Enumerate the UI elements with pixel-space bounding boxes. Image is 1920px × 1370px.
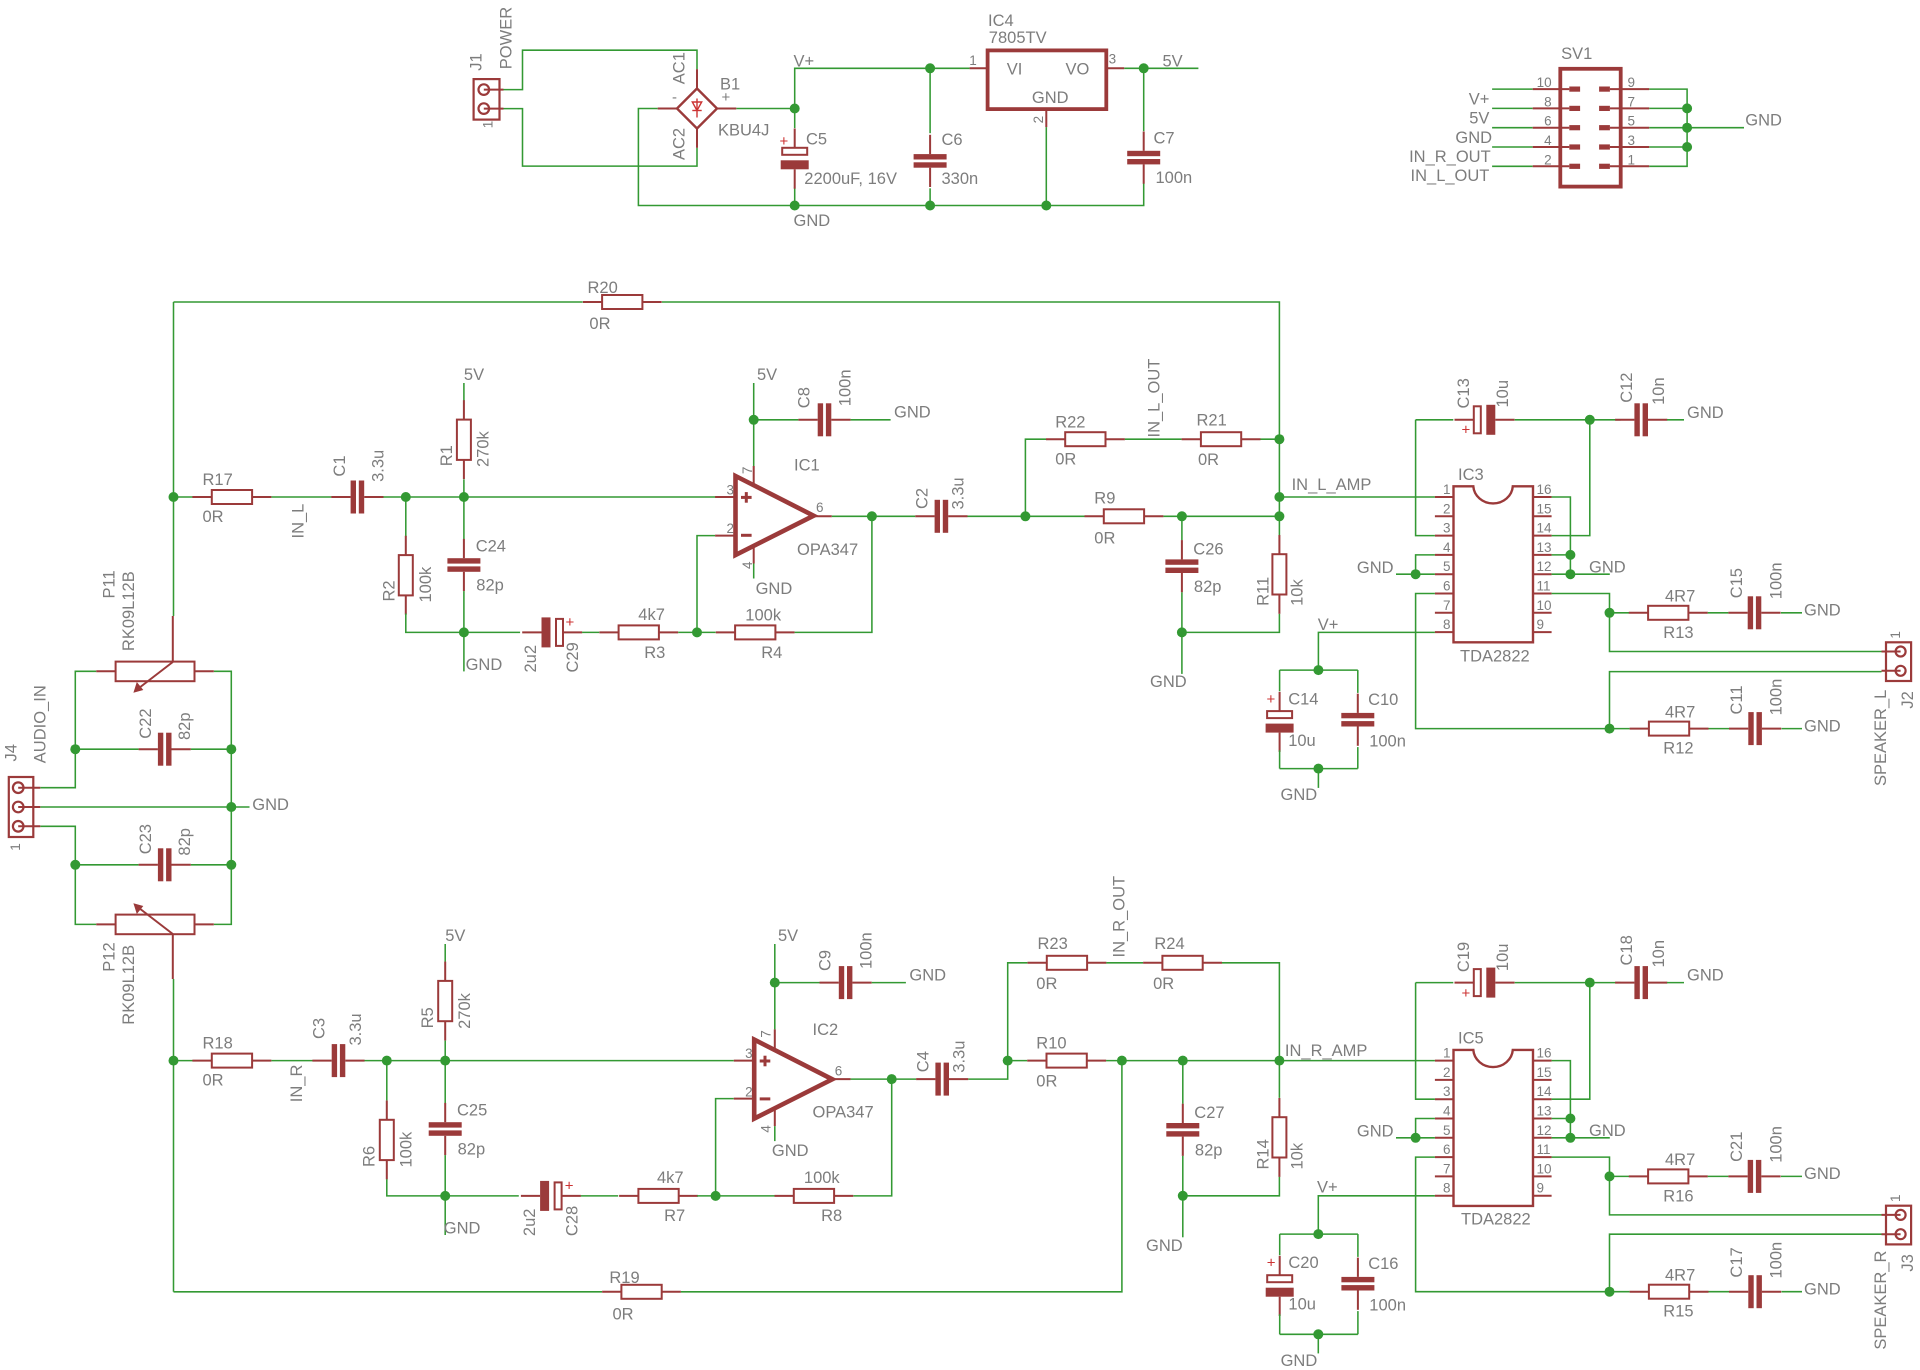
svg-text:12: 12 (1537, 559, 1552, 574)
svg-text:C3: C3 (311, 1018, 329, 1039)
wire C27 GND row to R14 (1183, 1177, 1280, 1196)
svg-text:GND: GND (252, 796, 289, 814)
svg-text:270k: 270k (475, 430, 493, 467)
svg-text:5V: 5V (778, 927, 798, 945)
junction C27/GND row (1178, 1191, 1188, 1201)
wire C20 top (1279, 1234, 1281, 1255)
svg-text:C16: C16 (1368, 1255, 1398, 1273)
wire pot right rail (214, 671, 232, 924)
wire IC1 pin7 5V (753, 383, 755, 466)
junction main/R6 (382, 1056, 392, 1066)
wire C19 link to pin3 (1416, 983, 1435, 1100)
junction main/R2 (401, 492, 411, 502)
resistor R24 0R (1143, 935, 1222, 993)
svg-text:GND: GND (894, 404, 931, 422)
junction pin11/R16 (1605, 1171, 1615, 1181)
svg-text:8: 8 (1443, 617, 1451, 632)
svg-text:GND: GND (1804, 601, 1841, 619)
svg-text:3.3u: 3.3u (370, 450, 388, 482)
svg-text:100n: 100n (857, 932, 875, 969)
wire C10 top (1357, 670, 1359, 693)
wire C26 GND row to R11 (1182, 614, 1280, 633)
wire R2 bottom to feedback row (406, 614, 464, 633)
capacitor C9 100n (817, 932, 876, 999)
label C24 (476, 538, 506, 595)
wire pin11 to R13/J2 (1552, 594, 1882, 652)
wire main row L1 (174, 496, 193, 498)
junction main/R5/C25 (440, 1056, 450, 1066)
svg-text:VO: VO (1066, 60, 1090, 78)
wire C22 row right (191, 748, 232, 750)
wire C9 left (775, 982, 820, 984)
svg-text:R1: R1 (438, 445, 456, 466)
svg-text:R5: R5 (419, 1007, 437, 1028)
svg-text:4R7: 4R7 (1665, 1151, 1695, 1169)
label C16 (1368, 1255, 1406, 1315)
svg-text:5V: 5V (445, 927, 465, 945)
svg-text:GND: GND (444, 1220, 481, 1238)
wire pin6 to R15 row (1416, 1157, 1610, 1292)
junction C13/C12 (1585, 415, 1595, 425)
svg-text:9: 9 (1628, 75, 1636, 90)
svg-text:2: 2 (1443, 1065, 1451, 1080)
capacitor C22 82p (137, 708, 194, 765)
wire R15-C17 (1709, 1291, 1730, 1293)
wire cap block top R (1280, 1233, 1358, 1235)
wire IC2 output (851, 1078, 916, 1080)
svg-text:-: - (672, 89, 677, 106)
svg-text:GND: GND (1804, 717, 1841, 735)
svg-text:7: 7 (740, 467, 755, 475)
resistor R22 0R (1046, 414, 1125, 469)
wire IC1 output (832, 515, 916, 517)
wire pin5 to GND (1396, 573, 1435, 575)
svg-text:+: + (1462, 985, 1471, 1002)
svg-text:GND: GND (1687, 404, 1724, 422)
svg-text:100n: 100n (836, 369, 854, 406)
svg-text:R19: R19 (609, 1269, 639, 1287)
wire IC2 pin4 (774, 1126, 776, 1141)
svg-text:1: 1 (969, 53, 977, 68)
svg-text:+: + (566, 614, 575, 631)
wire C25 bottom (444, 1155, 446, 1196)
junction pin7/C8 (749, 415, 759, 425)
resistor R3 4k7 (599, 606, 678, 662)
svg-text:SPEAKER_R: SPEAKER_R (1872, 1250, 1890, 1349)
svg-text:RK09L12B: RK09L12B (120, 571, 138, 651)
junction pin13 tie R (1565, 1114, 1575, 1124)
wire R10 right (1106, 1060, 1279, 1062)
resistor R15 4R7 (1630, 1266, 1709, 1320)
svg-text:3: 3 (1443, 521, 1451, 536)
label C7 (1154, 130, 1193, 187)
wire IC1 pin4 (753, 564, 755, 579)
svg-text:R15: R15 (1663, 1303, 1693, 1321)
junction block bottom R (1313, 1329, 1323, 1339)
wire pin12 to GND R (1552, 1137, 1610, 1139)
svg-text:GND: GND (756, 580, 793, 598)
svg-text:C1: C1 (331, 456, 349, 477)
svg-text:100n: 100n (1369, 733, 1406, 751)
svg-text:C2: C2 (914, 488, 932, 509)
wire pin14 link R (1552, 983, 1590, 1100)
svg-text:C9: C9 (817, 950, 835, 971)
svg-text:82p: 82p (176, 828, 194, 856)
wire C18 left (1590, 982, 1621, 984)
wire R22 riser (1025, 439, 1046, 516)
svg-text:GND: GND (794, 212, 831, 230)
svg-text:14: 14 (1537, 521, 1553, 536)
svg-text:2: 2 (745, 1085, 753, 1100)
svg-text:6: 6 (1544, 114, 1552, 129)
wire C19 right (1515, 982, 1590, 984)
svg-text:R2: R2 (381, 580, 399, 601)
capacitor C4 3.3u (914, 1041, 968, 1096)
junction GND/C6 (925, 201, 935, 211)
junction output/R4 (867, 511, 877, 521)
wire R12 left (1610, 728, 1630, 730)
svg-text:10: 10 (1537, 75, 1552, 90)
resistor R18 0R (192, 1035, 271, 1090)
junction pin13 tie (1565, 550, 1575, 560)
junction block bottom L (1313, 764, 1323, 774)
junction J4/C22 left (70, 744, 80, 754)
svg-text:IN_R_AMP: IN_R_AMP (1285, 1042, 1368, 1060)
svg-text:P11: P11 (101, 570, 119, 598)
wire SV1 pin6 (1492, 127, 1533, 129)
svg-text:10u: 10u (1288, 1296, 1316, 1314)
wire C2 right (968, 515, 1026, 517)
wire IC2 pin7 5V (774, 944, 776, 1029)
resistor R14 10k (1254, 1098, 1306, 1177)
wire 5V to R5 (444, 944, 446, 962)
junction rail/R21 (1274, 434, 1284, 444)
svg-text:RK09L12B: RK09L12B (120, 945, 138, 1025)
potentiometer P12 RK09L12B (96, 903, 214, 1024)
svg-text:R10: R10 (1036, 1035, 1066, 1053)
wire C21 right (1781, 1175, 1802, 1177)
svg-text:3: 3 (1109, 52, 1117, 67)
svg-text:100k: 100k (804, 1169, 841, 1187)
junction pin4/5 tie (1411, 569, 1421, 579)
capacitor C3 3.3u (311, 1013, 366, 1077)
wire pin12 to GND (1552, 573, 1610, 575)
svg-text:C13: C13 (1455, 378, 1473, 408)
svg-text:4R7: 4R7 (1665, 703, 1695, 721)
svg-text:5V: 5V (464, 366, 484, 384)
wire C16 bottom (1357, 1311, 1359, 1334)
wire V+ row IC5 (1318, 1196, 1435, 1234)
svg-text:7805TV: 7805TV (989, 29, 1047, 47)
svg-text:C15: C15 (1728, 568, 1746, 598)
wire R2 top (405, 497, 407, 537)
wire R5 bottom (444, 1041, 446, 1061)
wire R1 bottom (463, 479, 465, 497)
wire pin5 to GND R (1396, 1137, 1435, 1139)
svg-text:GND: GND (1150, 673, 1187, 691)
svg-text:V+: V+ (1469, 91, 1490, 109)
svg-text:C27: C27 (1194, 1104, 1224, 1122)
bridge rectifier B1 KBU4J (658, 52, 770, 160)
resistor R6 100k (361, 1101, 416, 1180)
svg-text:OPA347: OPA347 (797, 541, 858, 559)
label C26 (1193, 541, 1223, 596)
voltage regulator IC4 7805TV (969, 12, 1124, 127)
svg-text:R16: R16 (1663, 1187, 1693, 1205)
svg-text:IC5: IC5 (1458, 1030, 1484, 1048)
svg-text:+: + (565, 1178, 574, 1195)
svg-text:5V: 5V (1163, 53, 1183, 71)
junction C24/feedback row (459, 627, 469, 637)
wire J1 pin1 to bridge AC2 (504, 109, 698, 167)
junction R15 row (1605, 1287, 1615, 1297)
svg-text:P12: P12 (101, 942, 119, 971)
svg-text:C10: C10 (1368, 691, 1398, 709)
wire C6 bottom (929, 188, 931, 205)
svg-text:IC4: IC4 (988, 12, 1014, 30)
wire pin13 stub (1552, 554, 1571, 556)
wire GND stub block R (1317, 1334, 1319, 1353)
svg-text:14: 14 (1537, 1084, 1553, 1099)
wire main row R3 (365, 1060, 734, 1062)
wire C10 bottom (1357, 747, 1359, 769)
wire C16 top (1357, 1234, 1359, 1257)
svg-text:2u2: 2u2 (521, 1209, 539, 1237)
wire 5V to R1 (463, 383, 465, 401)
svg-text:0R: 0R (613, 1306, 634, 1324)
junction main/R1/C24 (459, 492, 469, 502)
svg-text:4R7: 4R7 (1665, 1266, 1695, 1284)
svg-text:10: 10 (1537, 598, 1552, 613)
svg-text:100n: 100n (1768, 1126, 1786, 1163)
svg-text:C17: C17 (1728, 1247, 1746, 1277)
svg-text:12: 12 (1537, 1123, 1552, 1138)
svg-text:13: 13 (1537, 1104, 1552, 1119)
wire feedback row L3 (678, 631, 716, 633)
wire SV1 right GND bus (1649, 89, 1687, 166)
wire R15 to J3 pin2 (1610, 1234, 1882, 1292)
svg-text:10: 10 (1537, 1161, 1552, 1176)
svg-text:4: 4 (1443, 540, 1451, 555)
junction R12 row (1605, 724, 1615, 734)
svg-text:+: + (1267, 691, 1276, 708)
resistor R12 4R7 (1630, 703, 1709, 757)
wire C17 right (1782, 1291, 1803, 1293)
svg-text:AUDIO_IN: AUDIO_IN (32, 685, 50, 763)
wire GND stub C25 (444, 1196, 446, 1235)
wire 5V node (1124, 67, 1198, 69)
label C6 (942, 131, 979, 188)
svg-text:7: 7 (759, 1030, 774, 1038)
svg-text:6: 6 (1443, 1142, 1451, 1157)
resistor R20 0R (583, 279, 662, 333)
capacitor None None (1165, 540, 1198, 592)
svg-text:2: 2 (1544, 152, 1552, 167)
svg-text:R21: R21 (1197, 412, 1227, 430)
svg-text:C28: C28 (563, 1206, 581, 1236)
svg-text:7: 7 (1628, 94, 1636, 109)
svg-text:8: 8 (1544, 94, 1552, 109)
svg-text:270k: 270k (456, 992, 474, 1029)
junction left rail/R17 (169, 492, 179, 502)
svg-text:9: 9 (1537, 1181, 1545, 1196)
wire R8 right to output (853, 1079, 891, 1196)
wire R12-C11 (1709, 728, 1730, 730)
wire C11 right (1782, 728, 1803, 730)
wire R13 left (1610, 612, 1630, 614)
svg-text:9: 9 (1537, 617, 1545, 632)
svg-text:GND: GND (1146, 1237, 1183, 1255)
wire C25 top (444, 1061, 446, 1103)
svg-text:10n: 10n (1650, 940, 1668, 968)
svg-text:15: 15 (1537, 1065, 1552, 1080)
resistor R13 4R7 (1629, 588, 1708, 642)
svg-text:0R: 0R (589, 315, 610, 333)
resistor R4 100k (716, 606, 795, 662)
wire C9 right (872, 982, 906, 984)
svg-text:0R: 0R (1036, 975, 1057, 993)
capacitor None None (447, 539, 480, 591)
capacitor C11 100n (1728, 679, 1786, 745)
svg-text:R9: R9 (1094, 490, 1115, 508)
wire C12 right (1667, 419, 1684, 421)
wire R21 right (1261, 438, 1280, 440)
junction R10/R19 riser (1117, 1056, 1127, 1066)
capacitor C17 100n (1728, 1242, 1786, 1308)
svg-text:GND: GND (1357, 1123, 1394, 1141)
svg-text:3: 3 (726, 482, 734, 497)
wire IC1 pin2 (697, 536, 715, 633)
svg-text:C29: C29 (564, 642, 582, 672)
resistor R9 0R (1085, 490, 1164, 548)
resistor R16 4R7 (1629, 1151, 1708, 1205)
wire main row L2 (272, 496, 332, 498)
junction block top L (1313, 665, 1323, 675)
junction R9/C26 (1177, 511, 1187, 521)
svg-text:C6: C6 (942, 131, 963, 149)
wire R15 left (1610, 1291, 1630, 1293)
svg-text:IN_L: IN_L (290, 504, 308, 539)
wire feedback row R1 (445, 1195, 519, 1197)
junction pin12 tie R (1565, 1133, 1575, 1143)
svg-text:VI: VI (1007, 60, 1023, 78)
junction main/C27 (1178, 1056, 1188, 1066)
wire pin11 to R16/J3 (1552, 1157, 1882, 1215)
svg-text:5: 5 (1443, 559, 1451, 574)
wire C12 left (1590, 419, 1621, 421)
wire pin13 stub R (1552, 1118, 1571, 1120)
svg-text:SPEAKER_L: SPEAKER_L (1872, 690, 1890, 786)
connector J3 SPEAKER_R (1872, 1194, 1917, 1349)
polarized capacitor C28 2u2 (521, 1178, 581, 1237)
svg-text:100n: 100n (1156, 169, 1193, 187)
wire J4 pin1 to P12 (40, 826, 96, 924)
svg-text:GND: GND (1804, 1165, 1841, 1183)
wire R9 right (1163, 515, 1279, 517)
svg-text:100n: 100n (1768, 1242, 1786, 1279)
svg-text:3.3u: 3.3u (347, 1013, 365, 1045)
svg-text:16: 16 (1537, 1046, 1552, 1061)
capacitor C15 100n (1728, 562, 1786, 629)
wire J1 pin2 to bridge AC1 (504, 50, 698, 89)
svg-text:R22: R22 (1055, 414, 1085, 432)
svg-text:16: 16 (1537, 482, 1552, 497)
svg-text:3.3u: 3.3u (950, 1041, 968, 1073)
svg-text:C14: C14 (1288, 691, 1318, 709)
svg-text:3: 3 (1628, 133, 1636, 148)
svg-text:330n: 330n (942, 170, 979, 188)
wire C6 top (929, 68, 931, 133)
wire C13 left (1416, 419, 1454, 421)
svg-text:GND: GND (1804, 1280, 1841, 1298)
wire C7 top (1143, 68, 1145, 131)
wire SV1 pin2 (1492, 165, 1533, 167)
svg-text:0R: 0R (1036, 1073, 1057, 1091)
wire C13 right (1515, 419, 1590, 421)
wire R12 to J2 pin2 (1610, 672, 1882, 729)
svg-text:7: 7 (1443, 1161, 1451, 1176)
svg-text:0R: 0R (203, 1072, 224, 1090)
svg-text:V+: V+ (1318, 616, 1339, 634)
svg-text:6: 6 (835, 1064, 843, 1079)
svg-text:4: 4 (740, 561, 755, 569)
wire R23-R24 (1106, 962, 1143, 964)
svg-text:2200uF, 16V: 2200uF, 16V (804, 170, 897, 188)
wire main row R2 (272, 1060, 313, 1062)
wire SV1 pin8 (1492, 107, 1533, 109)
connector J4 AUDIO_IN (3, 685, 50, 851)
svg-text:GND: GND (1745, 112, 1782, 130)
svg-text:82p: 82p (1195, 1141, 1223, 1159)
wire pin14 link (1552, 420, 1590, 536)
label C25 (457, 1102, 487, 1159)
svg-text:8: 8 (1443, 1181, 1451, 1196)
svg-text:R17: R17 (203, 471, 233, 489)
junction SV1 pin7 (1682, 103, 1692, 113)
svg-text:0R: 0R (203, 508, 224, 526)
svg-text:6: 6 (816, 500, 824, 515)
svg-text:GND: GND (1032, 89, 1069, 107)
svg-text:C8: C8 (796, 387, 814, 408)
wire C15 right (1781, 612, 1802, 614)
wire feedback row R2 (581, 1195, 618, 1197)
wire C26 top (1181, 516, 1183, 540)
wire R4 right to output (795, 516, 872, 632)
svg-text:4k7: 4k7 (657, 1169, 684, 1187)
junction pin4/5 tie R (1411, 1133, 1421, 1143)
svg-text:C18: C18 (1618, 935, 1636, 965)
junction rail/C22 (226, 744, 236, 754)
junction J4/C23 left (70, 860, 80, 870)
svg-text:GND: GND (1455, 129, 1492, 147)
svg-text:1: 1 (481, 121, 496, 129)
svg-text:R7: R7 (664, 1207, 685, 1225)
wire SV1 pin4 (1492, 146, 1533, 148)
svg-text:4k7: 4k7 (638, 606, 665, 624)
svg-text:R8: R8 (821, 1207, 842, 1225)
wire left rail upper (173, 302, 175, 616)
svg-text:3: 3 (745, 1046, 753, 1061)
connector J2 SPEAKER_L (1872, 631, 1917, 786)
svg-text:GND: GND (909, 967, 946, 985)
wire C22 row left (75, 748, 138, 750)
svg-text:IC2: IC2 (813, 1021, 839, 1039)
svg-text:4: 4 (759, 1125, 774, 1133)
junction pin12 tie (1565, 569, 1575, 579)
junction C2/R22/R9 (1020, 511, 1030, 521)
wire C18 right (1667, 982, 1684, 984)
IC TDA2822 IC3 (1435, 466, 1552, 666)
